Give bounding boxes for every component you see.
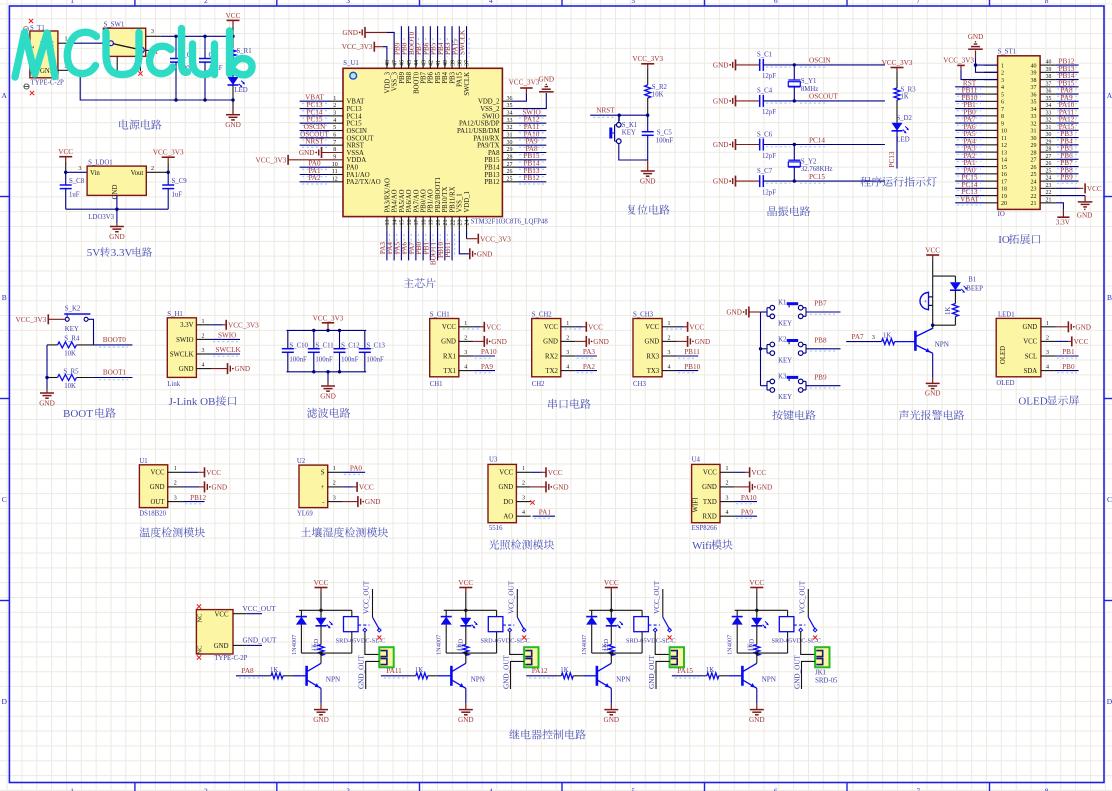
ground GND (oled) (1056, 321, 1091, 332)
U2 pin 2 (328, 481, 343, 487)
svg-text:S_C9: S_C9 (172, 178, 188, 185)
ruler ticks bottom (135, 783, 990, 791)
diode 1N4007 (relay 1) (291, 610, 307, 655)
svg-text:6: 6 (774, 0, 778, 5)
wire rail to coil (relay 2) (496, 610, 498, 616)
wire R2 to NRST node (647, 98, 649, 115)
resistor 1K vertical (relay 4) (746, 626, 759, 656)
svg-text:VCC: VCC (689, 323, 704, 331)
U3 pin 3 (516, 495, 530, 501)
svg-text:22: 22 (1031, 194, 1037, 200)
wire BOOT1 (94, 377, 133, 379)
ground GND (CH1) (473, 336, 507, 347)
svg-text:1N4007: 1N4007 (727, 635, 734, 655)
svg-text:PA2/TX/AO: PA2/TX/AO (347, 179, 381, 186)
svg-text:KEY: KEY (778, 321, 792, 328)
svg-text:GND: GND (39, 399, 55, 407)
svg-text:22: 22 (1046, 190, 1052, 196)
svg-text:GND: GND (713, 178, 729, 186)
transistor NPN (relay 3) (597, 663, 631, 688)
svg-text:GND: GND (726, 309, 742, 317)
power VCC_3V3 (filter) (313, 314, 344, 330)
mcu pin 41 (PB5) (430, 26, 442, 84)
header pin 17 (955, 174, 1007, 186)
svg-text:LED: LED (896, 136, 909, 143)
net label PB7 / wire (806, 300, 841, 315)
svg-text:KEY: KEY (778, 394, 792, 401)
net label PA9 / wire (473, 363, 495, 373)
svg-text:Wifi: Wifi (692, 540, 712, 552)
mcu pin 9 (VDDA) (288, 154, 366, 164)
header pin 16 (955, 166, 1007, 178)
svg-text:Vout: Vout (131, 170, 144, 177)
svg-text:38: 38 (1031, 78, 1037, 84)
title 晶振电路 (768, 206, 811, 216)
svg-text:1: 1 (726, 466, 729, 472)
svg-text:1K: 1K (901, 94, 909, 101)
svg-text:SRD-05: SRD-05 (815, 678, 838, 685)
header pin 30 (1031, 130, 1079, 142)
wire VCC_3V3 to K2 (48, 318, 65, 320)
svg-text:PB3: PB3 (449, 71, 456, 83)
wire NRST (590, 114, 648, 116)
svg-text:1N4007: 1N4007 (436, 635, 443, 655)
svg-text:41: 41 (436, 60, 442, 66)
switch pole VCC_OUT (relay 2) (507, 580, 517, 617)
svg-text:VCC: VCC (359, 484, 374, 492)
U1 pin 2 (168, 481, 184, 487)
relay switch arm (relay 2) (503, 617, 526, 632)
output jack (relay 1) (379, 647, 393, 667)
svg-text:GND_OUT: GND_OUT (503, 654, 511, 689)
U4 pin 4 (720, 510, 734, 516)
svg-text:31: 31 (1046, 125, 1052, 131)
svg-text:12pF: 12pF (762, 73, 776, 80)
svg-text:GND: GND (342, 29, 358, 37)
svg-text:SWIO: SWIO (482, 113, 499, 120)
wire emitter to gnd (relay 3) (610, 688, 612, 703)
svg-text:6: 6 (1001, 100, 1004, 106)
U4 pin 1 (720, 466, 734, 472)
svg-text:VCC_3V3: VCC_3V3 (228, 321, 259, 329)
svg-text:8: 8 (1001, 114, 1004, 120)
svg-text:24: 24 (1031, 179, 1037, 185)
junction ldo gnd rail (115, 208, 118, 211)
resistor 1K (relay base 2) (412, 667, 438, 679)
svg-text:24: 24 (465, 220, 471, 226)
svg-text:10K: 10K (64, 350, 76, 357)
header pin 6 (955, 94, 1004, 106)
svg-text:S_C4: S_C4 (757, 88, 773, 95)
regulator S_LDO1 (87, 159, 146, 221)
svg-text:33: 33 (1031, 114, 1037, 120)
svg-text:ESP8266: ESP8266 (692, 525, 718, 532)
header pin 23 (1031, 183, 1056, 193)
connector S_T1 (TYPE-C-2P) (30, 25, 65, 87)
svg-text:NPN: NPN (616, 675, 631, 683)
mcu pin 32 (PA11/USB/DM) (457, 123, 546, 135)
wire collector (relay 3) (610, 653, 612, 663)
svg-text:PB11: PB11 (684, 348, 700, 356)
power VCC (header pin23) (1056, 183, 1102, 193)
net label PA1 / wire (533, 508, 556, 518)
svg-text:2: 2 (522, 481, 525, 487)
svg-text:39: 39 (1046, 67, 1052, 73)
led (relay 3) (603, 610, 623, 651)
header pin 3 (984, 78, 1004, 84)
svg-text:Link: Link (167, 381, 180, 388)
wire rail to K1 (761, 311, 768, 313)
mcu pin 24 (VDD_1) (464, 191, 477, 239)
filter top rail (287, 329, 367, 331)
mcu pin 46 (PB9) (393, 26, 405, 84)
svg-text:VCC: VCC (703, 470, 717, 477)
svg-text:IO: IO (998, 211, 1005, 218)
svg-text:PA0: PA0 (347, 165, 359, 172)
svg-text:4: 4 (668, 365, 671, 371)
svg-text:GND: GND (150, 484, 165, 491)
svg-text:25: 25 (1046, 168, 1052, 174)
resistor S_R4 10K (47, 336, 94, 358)
svg-text:10: 10 (1001, 129, 1007, 135)
capacitor S_C2 100nF (170, 36, 197, 100)
resistor 1K (alarm led) (945, 290, 959, 325)
mcu pin 36 (VDD_2) (478, 79, 540, 106)
transistor NPN (alarm) (915, 325, 949, 353)
header pin 35 (1031, 94, 1079, 106)
wire emitter to gnd (relay 2) (465, 688, 467, 703)
shield symbol (23, 26, 28, 31)
title 滤波电路 (307, 408, 350, 418)
ruler ticks left (0, 197, 9, 601)
svg-text:PB9: PB9 (1060, 174, 1073, 182)
U4 pin 2 (720, 481, 734, 487)
mcu pin 7 (NRST) (300, 138, 365, 150)
ground GND (U4) (734, 481, 772, 492)
svg-text:4: 4 (202, 363, 205, 369)
module U1 DS18B20 (139, 458, 168, 518)
title Wifi模块 (692, 540, 733, 552)
CH1 pin 2 (459, 335, 473, 341)
svg-text:PB12: PB12 (190, 494, 206, 502)
svg-text:VCC_OUT: VCC_OUT (798, 580, 806, 614)
output jack (relay 2) (524, 647, 538, 667)
svg-text:16: 16 (407, 220, 413, 226)
ground GND filter (320, 382, 336, 400)
svg-text:VCC_3V3: VCC_3V3 (632, 55, 663, 63)
svg-text:5516: 5516 (489, 525, 503, 532)
wire to base (relay 4) (729, 675, 743, 677)
wire VCC_3V3 to R2 (647, 69, 649, 85)
svg-text:CH3: CH3 (633, 381, 646, 388)
svg-text:PC14: PC14 (809, 136, 825, 144)
relay bottom rail 2 (446, 652, 496, 654)
relay top rail 4 (735, 609, 788, 611)
svg-text:VCC: VCC (548, 469, 563, 477)
svg-text:OLED: OLED (996, 380, 1014, 387)
ruler ticks top (135, 0, 990, 6)
svg-text:1K: 1K (945, 307, 952, 315)
junction at VCC rail / R1 column (231, 35, 234, 38)
svg-text:3.3V: 3.3V (1056, 218, 1071, 226)
svg-text:PB2/BOOT1: PB2/BOOT1 (435, 177, 442, 213)
svg-text:GND: GND (925, 390, 941, 398)
svg-text:PB15: PB15 (484, 157, 500, 164)
svg-text:1K: 1K (746, 643, 753, 651)
svg-text:3: 3 (726, 495, 729, 501)
svg-text:38: 38 (458, 60, 464, 66)
wire PA7 to resistor (846, 341, 881, 343)
svg-text:PC15: PC15 (347, 121, 363, 128)
svg-text:GND: GND (757, 484, 773, 492)
svg-text:3: 3 (202, 348, 205, 354)
svg-text:19: 19 (429, 220, 435, 226)
svg-text:2: 2 (333, 481, 336, 487)
header pin 32 (1031, 116, 1079, 128)
svg-text:2: 2 (204, 787, 208, 791)
net label PB9 / wire (806, 373, 841, 388)
header pin 14 (955, 152, 1007, 164)
junction Vout node (167, 171, 170, 174)
svg-text:S_C7: S_C7 (757, 168, 773, 175)
svg-text:PA11: PA11 (386, 667, 402, 675)
svg-text:PA1/AO: PA1/AO (347, 172, 370, 179)
svg-text:VCC_OUT: VCC_OUT (507, 580, 515, 614)
junction crystal branch row 3 (793, 143, 796, 146)
mcu pin 30 (PA9/TX) (477, 138, 546, 150)
resistor 1K vertical (relay 1) (311, 626, 324, 656)
svg-text:100nF: 100nF (289, 356, 307, 363)
led S_D2 LED (892, 115, 913, 143)
svg-text:2: 2 (464, 335, 467, 341)
svg-text:PA15: PA15 (677, 667, 693, 675)
connector S_CH3 body (633, 312, 662, 388)
header pin 40 (1031, 58, 1079, 70)
svg-text:16: 16 (1001, 172, 1007, 178)
wire to LDO Vin (66, 171, 87, 173)
svg-text:GND: GND (491, 338, 507, 346)
svg-text:BEEP: BEEP (966, 285, 983, 292)
wire R3 to LED D2 (896, 100, 898, 123)
svg-text:S_R3: S_R3 (901, 87, 917, 94)
svg-text:VCC: VCC (544, 324, 558, 331)
no-ERC marker switch (relay 4) (813, 636, 817, 640)
svg-text:11: 11 (1001, 136, 1007, 142)
junction vcc rail 1 (319, 609, 322, 612)
wire coil to bottom rail (relay 2) (496, 632, 498, 653)
CH2 pin 3 (561, 350, 575, 356)
ruler ticks right (1104, 197, 1112, 601)
power VCC (relay 2) (458, 579, 473, 592)
transistor NPN (relay 4) (742, 663, 776, 688)
net label PA3 / wire (575, 348, 597, 358)
svg-text:PC14: PC14 (347, 113, 363, 120)
mcu pin 39 (PB3) (444, 26, 456, 84)
oled pin 4 (1041, 365, 1056, 371)
svg-text:S_K1: S_K1 (622, 122, 638, 129)
crystal S_Y1 8MHz (788, 65, 818, 101)
svg-text:VCC_3V3: VCC_3V3 (16, 316, 47, 324)
svg-text:VSS_1: VSS_1 (457, 193, 464, 212)
svg-text:VDDA: VDDA (347, 157, 367, 164)
power VCC_3V3 (boot) (16, 314, 49, 324)
power VCC_3V3 at mcu VDDA (256, 155, 289, 165)
svg-text:LDO3V3: LDO3V3 (88, 214, 114, 221)
svg-text:3: 3 (566, 350, 569, 356)
wire contact to jack (relay 1) (365, 632, 379, 655)
svg-text:VCC_3V3: VCC_3V3 (480, 235, 511, 243)
svg-text:VBAT: VBAT (347, 99, 366, 106)
ground GND boot (39, 389, 55, 407)
header pin 20 (955, 195, 1007, 207)
svg-text:39: 39 (1031, 71, 1037, 77)
svg-text:RX1: RX1 (443, 353, 456, 360)
svg-text:21: 21 (1031, 201, 1037, 207)
svg-text:+: + (924, 299, 928, 306)
header pin 9 (955, 116, 1004, 128)
wire SW1 pin3 to VCC rail (161, 35, 233, 37)
svg-text:U1: U1 (139, 458, 147, 465)
resistor S_R2 10K (645, 84, 668, 99)
svg-text:VCC_3V3: VCC_3V3 (342, 43, 373, 51)
relay top rail 3 (589, 609, 642, 611)
ground GND (relay 2) (458, 704, 474, 724)
header pin 19 (955, 188, 1007, 200)
relay coil box (relay 1) (344, 617, 359, 632)
svg-text:GND: GND (441, 339, 456, 346)
power VCC_3V3 (jlink) (211, 320, 259, 330)
mcu pin 31 (PA10/RX) (473, 130, 546, 142)
wire PA15 to base resistor (672, 675, 703, 677)
svg-text:C: C (1107, 495, 1112, 504)
svg-text:BOOT0: BOOT0 (103, 336, 127, 344)
wire to base (relay 1) (293, 675, 307, 677)
svg-text:4: 4 (522, 510, 525, 516)
svg-text:1K: 1K (560, 667, 568, 674)
svg-text:39: 39 (450, 60, 456, 66)
CH3 pin 3 (662, 350, 676, 356)
svg-text:PA12: PA12 (532, 667, 548, 675)
svg-text:47: 47 (392, 60, 398, 66)
pin 2 of S_T1 (58, 64, 71, 71)
svg-text:S_CH3: S_CH3 (633, 312, 654, 319)
ground GND (header top) (968, 33, 998, 73)
svg-text:PB7: PB7 (814, 300, 827, 308)
svg-text:7: 7 (916, 0, 920, 5)
wire cap to right row 4 (763, 180, 885, 182)
oled pin 1 (1041, 321, 1056, 327)
svg-text:PB4: PB4 (442, 71, 449, 83)
junction C2 bottom (174, 98, 177, 101)
mcu pin 44 (BOOT0) (408, 26, 420, 94)
svg-text:CH1: CH1 (430, 381, 443, 388)
svg-text:AO: AO (503, 514, 513, 521)
svg-text:1: 1 (566, 321, 569, 327)
svg-text:3: 3 (668, 350, 671, 356)
pin of S_SW1 lower right (nc) (146, 49, 158, 53)
svg-text:GND: GND (498, 484, 513, 491)
wire VCC_3V3 to Vout (167, 162, 169, 172)
svg-text:OSCOUT: OSCOUT (809, 93, 838, 101)
svg-text:PB0/AO: PB0/AO (421, 189, 428, 213)
svg-text:NPN: NPN (471, 675, 486, 683)
svg-text:25: 25 (1031, 172, 1037, 178)
svg-text:KEY: KEY (65, 326, 79, 333)
svg-text:U2: U2 (297, 458, 306, 465)
svg-text:RXD: RXD (702, 514, 716, 521)
button K2 KEY (767, 337, 806, 365)
svg-text:PA5/AO: PA5/AO (399, 189, 406, 212)
wire contact to jack (relay 3) (655, 632, 669, 655)
mcu pin 37 (SWCLK) (459, 26, 471, 96)
svg-text:PA7: PA7 (852, 333, 865, 341)
svg-text:GND: GND (112, 185, 119, 200)
power VCC_3V3 (header pin3) (943, 57, 997, 80)
svg-text:PB11/RX: PB11/RX (449, 186, 456, 212)
junction filter rail (326, 329, 329, 332)
header pin 27 (1031, 152, 1079, 164)
svg-text:3: 3 (346, 787, 350, 791)
svg-text:SDA: SDA (1024, 368, 1038, 375)
mcu pin 3 (PC14) (300, 108, 363, 120)
svg-text:NRST: NRST (347, 143, 365, 150)
ground GND (keys) (726, 307, 749, 318)
wire alarm top rail (933, 275, 956, 277)
relay top rail 2 (444, 609, 497, 611)
svg-text:DS18B20: DS18B20 (139, 510, 166, 517)
led alarm (950, 276, 968, 293)
svg-text:3: 3 (333, 495, 336, 501)
wire K2 to BOOT0 node (88, 319, 93, 345)
svg-text:SWCLK: SWCLK (216, 346, 242, 354)
power VCC (U1) (184, 467, 222, 477)
CH3 pin 2 (662, 335, 676, 341)
oled pin 2 (1041, 335, 1056, 341)
svg-text:VCC: VCC (226, 12, 241, 20)
led (relay 2) (458, 610, 478, 651)
title BOOT电路 (63, 408, 116, 420)
net label PB10 / wire (677, 363, 701, 373)
transistor NPN (relay 2) (451, 663, 485, 688)
wire R4 left to gnd rail (46, 345, 48, 389)
power VCC (CH2) (565, 322, 603, 332)
filter bottom rail (287, 371, 367, 373)
svg-text:27: 27 (1031, 158, 1037, 164)
ground GND at mcu VSS_2 (539, 75, 555, 91)
svg-text:PB14: PB14 (484, 165, 500, 172)
svg-text:3: 3 (1001, 78, 1004, 84)
svg-text:5: 5 (1001, 92, 1004, 98)
wire emitter to gnd (relay 1) (320, 688, 322, 703)
svg-text:VCC: VCC (458, 579, 473, 587)
svg-text:21: 21 (1046, 197, 1052, 203)
net label PA2 / wire (575, 363, 597, 373)
connector S_CH1 body (430, 312, 459, 388)
svg-text:PB8: PB8 (814, 337, 827, 345)
resistor S_R1 1K (230, 48, 252, 63)
svg-text:STM32F103C8T6_LQFP48: STM32F103C8T6_LQFP48 (471, 218, 549, 225)
svg-text:NPN: NPN (935, 340, 950, 348)
connector S_CH2 body (532, 312, 561, 388)
svg-text:GND: GND (212, 484, 228, 492)
svg-text:VCC: VCC (314, 579, 329, 587)
svg-text:1: 1 (70, 0, 74, 5)
relay bottom rail 4 (737, 652, 787, 654)
svg-text:VCC: VCC (604, 579, 619, 587)
junction crystal branch row 2 (793, 99, 796, 102)
svg-text:GND: GND (1077, 212, 1093, 220)
junction vcc rail 3 (610, 609, 613, 612)
